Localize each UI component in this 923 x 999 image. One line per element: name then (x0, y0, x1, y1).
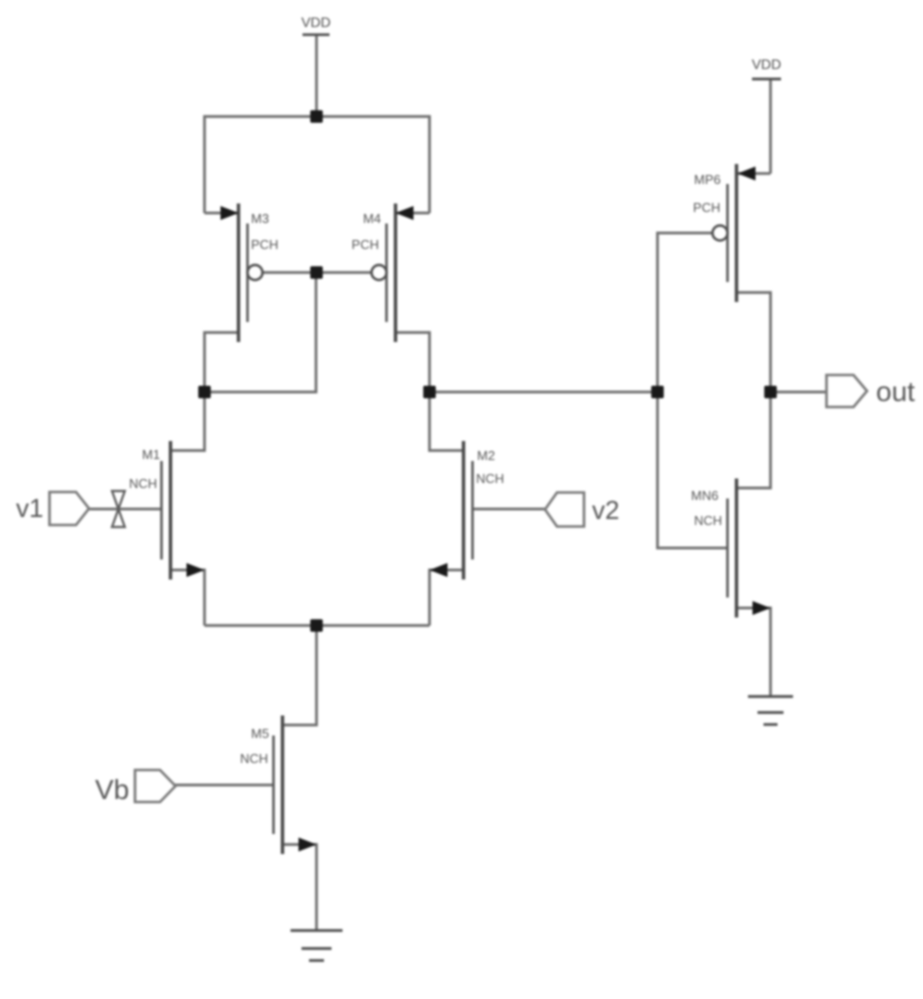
svg-text:v2: v2 (592, 495, 619, 525)
svg-text:out: out (876, 376, 915, 407)
svg-text:M4: M4 (363, 211, 381, 226)
svg-text:MP6: MP6 (694, 172, 721, 187)
svg-text:M1: M1 (142, 447, 160, 462)
svg-text:PCH: PCH (352, 237, 379, 252)
svg-text:v1: v1 (16, 493, 43, 523)
svg-text:M5: M5 (251, 726, 269, 741)
svg-text:PCH: PCH (693, 200, 720, 215)
svg-text:Vb: Vb (95, 774, 129, 805)
svg-text:M2: M2 (477, 448, 495, 463)
svg-text:NCH: NCH (476, 471, 504, 486)
svg-text:NCH: NCH (694, 513, 722, 528)
svg-text:PCH: PCH (251, 237, 278, 252)
svg-text:M3: M3 (251, 211, 269, 226)
svg-text:VDD: VDD (301, 14, 331, 30)
svg-text:NCH: NCH (129, 476, 157, 491)
svg-text:MN6: MN6 (691, 488, 718, 503)
svg-text:VDD: VDD (752, 56, 782, 72)
svg-text:NCH: NCH (240, 751, 268, 766)
